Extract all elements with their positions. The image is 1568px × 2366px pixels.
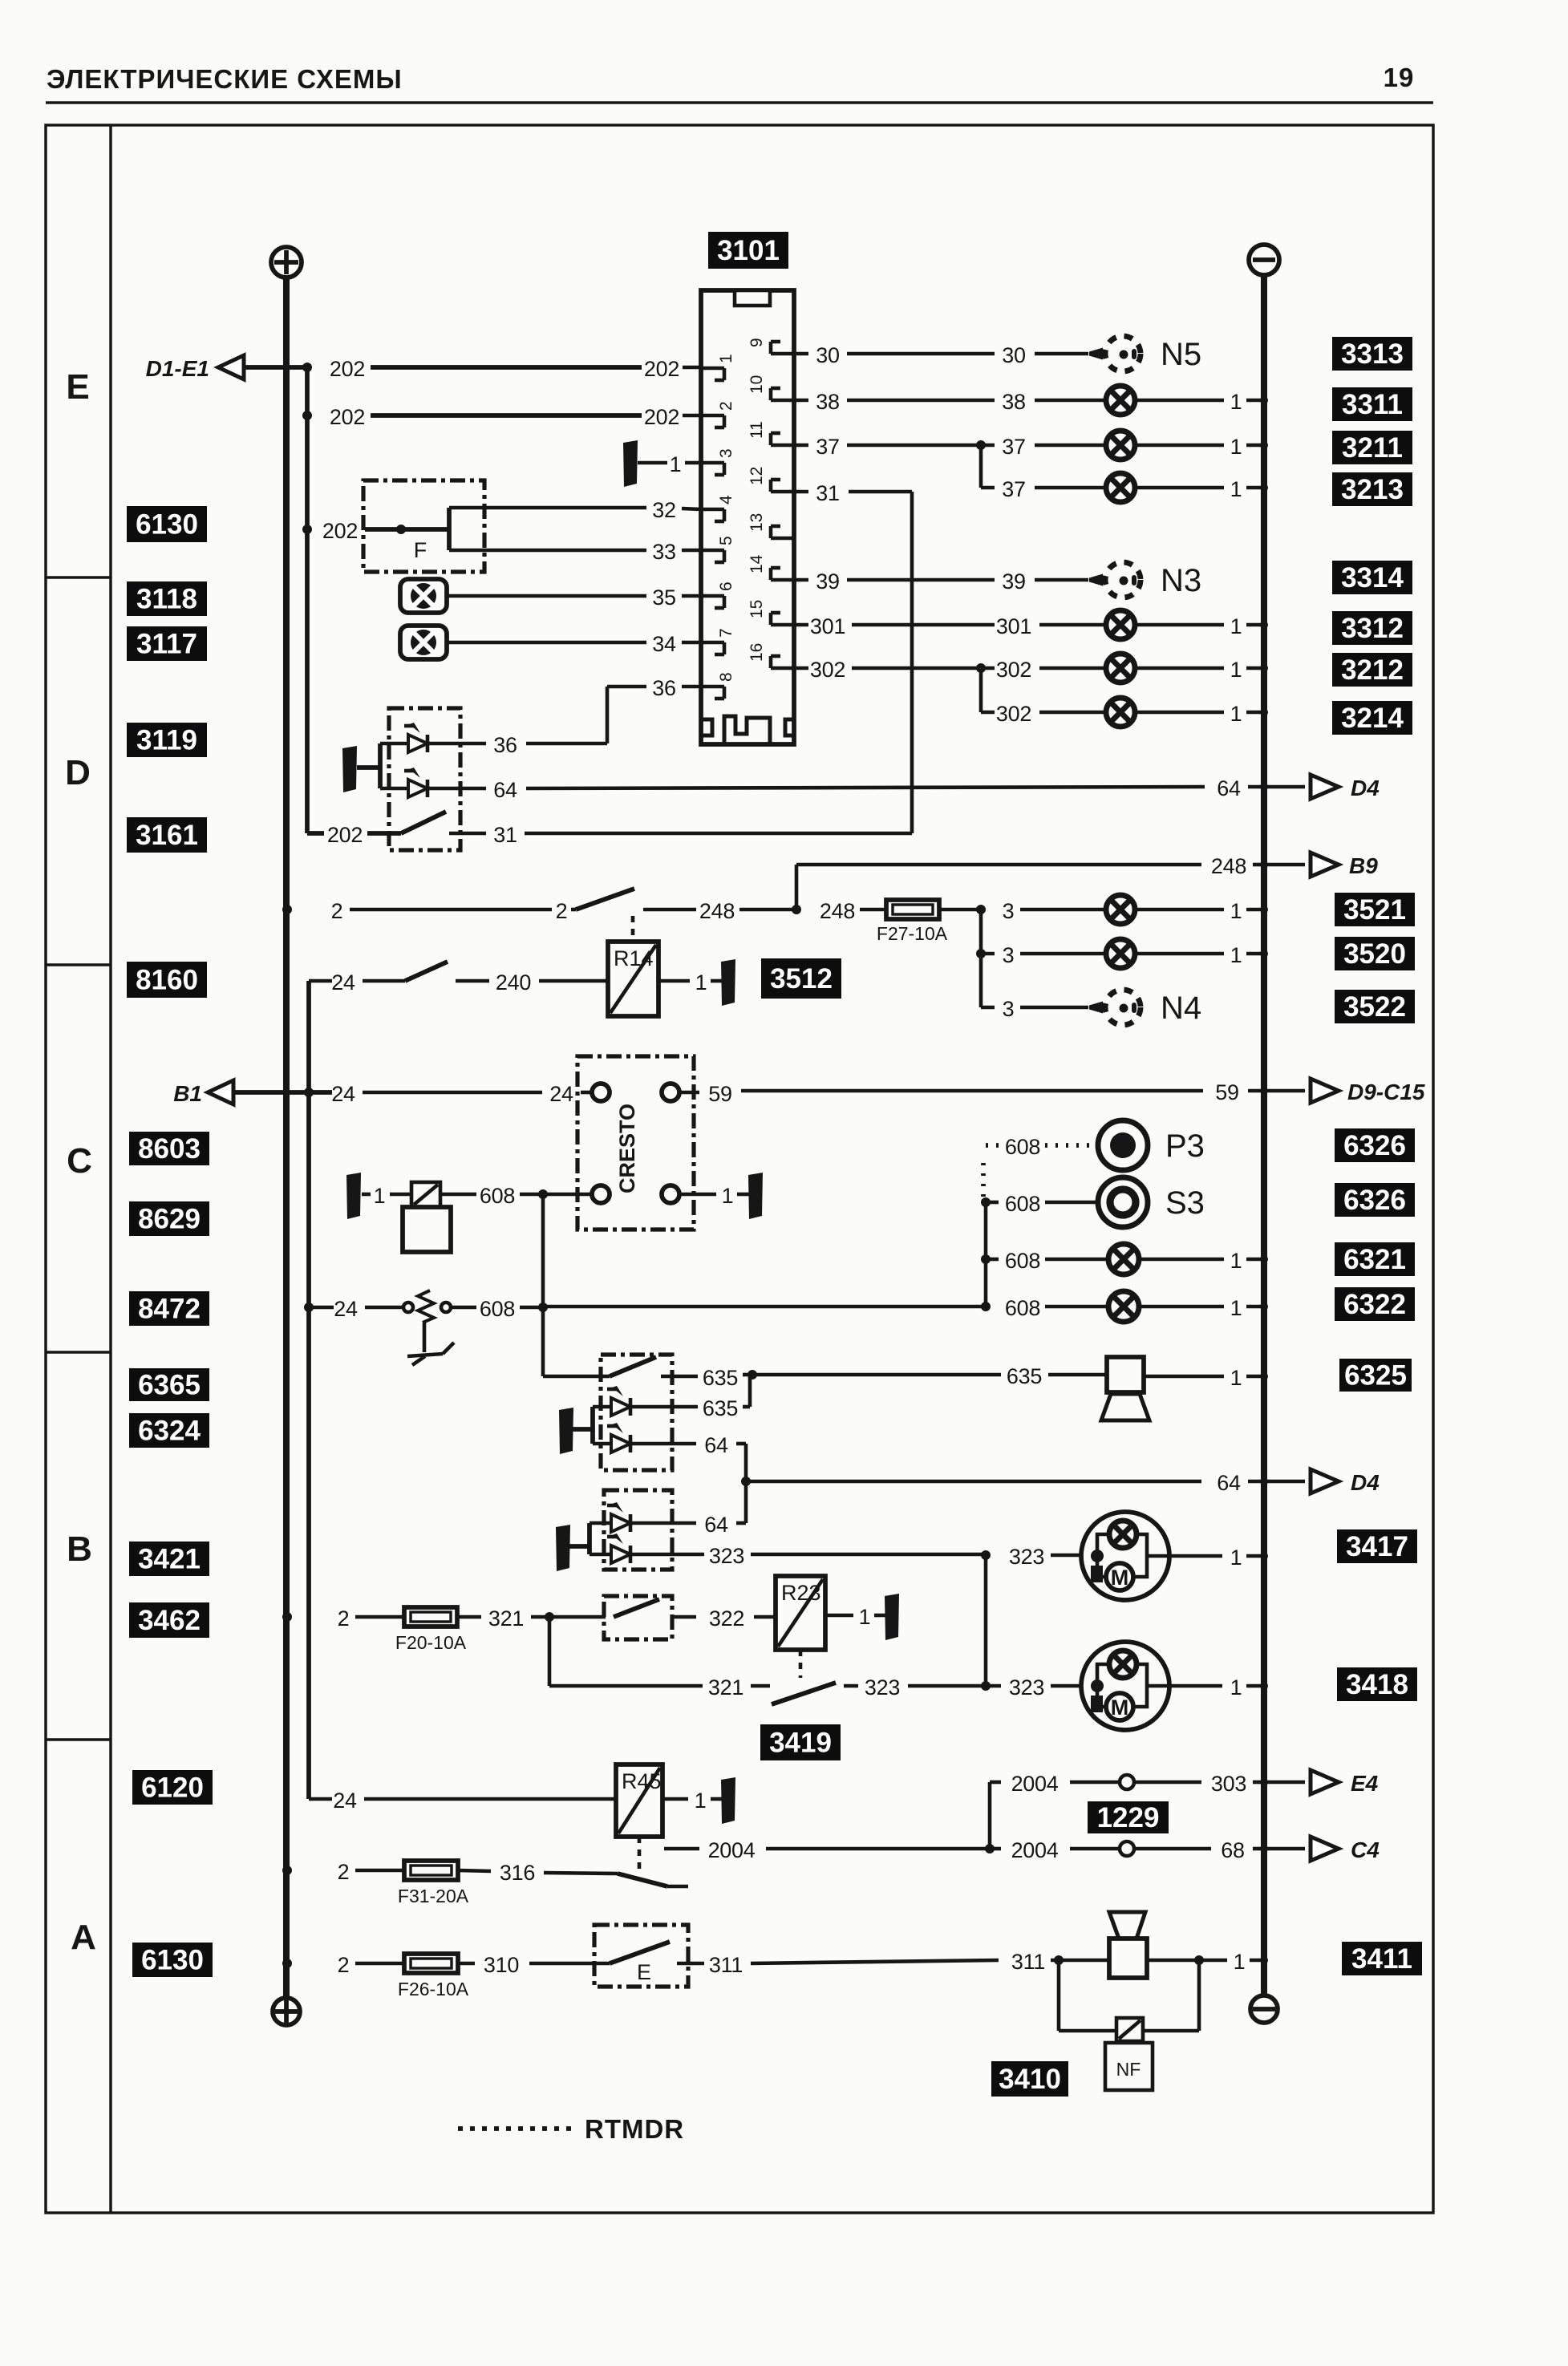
svg-text:31: 31 <box>816 481 839 505</box>
svg-text:3311: 3311 <box>1342 389 1403 420</box>
wire 37 from pin 11 <box>794 435 1106 459</box>
svg-text:3: 3 <box>1003 997 1015 1021</box>
wire 31 route to pin 12 <box>493 481 912 847</box>
svg-text:10: 10 <box>748 375 766 394</box>
wire 608 to switch S3 <box>981 1192 1097 1216</box>
svg-text:311: 311 <box>1011 1950 1045 1974</box>
svg-text:7: 7 <box>717 628 735 638</box>
wire 30 from pin 9 <box>794 343 1088 367</box>
fuse F20-10A <box>395 1607 467 1653</box>
section tick C/B <box>46 1351 111 1353</box>
lamp 6321 <box>1108 1244 1268 1274</box>
svg-text:302: 302 <box>810 658 845 682</box>
svg-text:64: 64 <box>1217 1471 1241 1495</box>
label box 3462 <box>129 1602 209 1638</box>
svg-text:3462: 3462 <box>138 1605 201 1636</box>
svg-text:3119: 3119 <box>136 725 197 756</box>
svg-text:3117: 3117 <box>136 629 197 660</box>
label box 3314 <box>1332 561 1412 594</box>
ground at CRESTO <box>748 1173 763 1219</box>
svg-text:2: 2 <box>338 1606 350 1631</box>
wire 36 pin 8 route <box>427 676 701 757</box>
wire 1 to pin 3 <box>638 452 701 476</box>
switch E blade <box>610 1942 670 1963</box>
svg-text:31: 31 <box>493 823 517 847</box>
svg-text:1: 1 <box>374 1184 386 1208</box>
svg-text:302: 302 <box>996 658 1031 682</box>
svg-text:15: 15 <box>748 600 766 618</box>
svg-text:2: 2 <box>331 899 343 923</box>
svg-text:321: 321 <box>708 1675 743 1700</box>
wire 1 from R23 to ground <box>825 1605 885 1629</box>
pin 16 of 3101 <box>748 643 794 668</box>
wire 2004 / 303 to E4 <box>990 1772 1305 1796</box>
CRESTO terminal bottom-left <box>592 1185 610 1203</box>
label box 3512 <box>761 958 841 999</box>
wire 321 <box>457 1606 606 1631</box>
svg-text:38: 38 <box>1002 390 1025 414</box>
label box 1229 <box>1088 1801 1169 1833</box>
blower motor 3411 <box>1109 1912 1147 1978</box>
CRESTO terminal top-left <box>592 1084 610 1101</box>
feed wire vertical 202 (upper) <box>305 367 310 833</box>
svg-text:8603: 8603 <box>138 1133 201 1165</box>
switch S3 (lighter ring) <box>1098 1177 1205 1227</box>
fuse F31-20A <box>398 1861 469 1906</box>
svg-text:3213: 3213 <box>1341 474 1404 505</box>
label box 6130 (section E) <box>127 506 207 542</box>
svg-text:32: 32 <box>652 498 675 522</box>
wire 323 upper run <box>630 1544 1081 1569</box>
svg-text:39: 39 <box>816 569 839 594</box>
label box 3161 <box>127 817 207 853</box>
lamp 6322 <box>1108 1291 1268 1322</box>
wire 64 to D4 lower <box>630 1433 1305 1523</box>
pin 10 of 3101 <box>748 375 794 400</box>
svg-text:3313: 3313 <box>1341 338 1404 370</box>
svg-text:1: 1 <box>1230 1675 1242 1700</box>
illumination diode (wire 64) <box>380 768 427 797</box>
horn 6325 <box>1101 1357 1149 1420</box>
svg-text:202: 202 <box>322 519 358 543</box>
left index column divider <box>109 125 111 2213</box>
svg-text:19: 19 <box>1384 63 1415 92</box>
wire 323 to 3418 <box>986 1675 1081 1700</box>
svg-text:1: 1 <box>722 1184 734 1208</box>
wire 34 to pin 7 <box>447 632 701 656</box>
svg-text:202: 202 <box>327 823 363 847</box>
svg-text:608: 608 <box>1005 1296 1040 1320</box>
relay-to-switch dashed link R45 <box>638 1837 642 1872</box>
pin 2 of 3101 <box>701 401 735 427</box>
wire 24 to CRESTO <box>233 1082 592 1106</box>
pin 12 of 3101 <box>748 467 794 492</box>
feed wire vertical 24 (lower) <box>306 981 311 1799</box>
svg-text:E: E <box>637 1960 651 1984</box>
wire 3 branch vertical <box>979 910 983 1007</box>
svg-text:ЭЛЕКТРИЧЕСКИЕ СХЕМЫ: ЭЛЕКТРИЧЕСКИЕ СХЕМЫ <box>47 64 403 94</box>
node D4 (page reference out, lower) <box>1311 1469 1380 1495</box>
svg-text:322: 322 <box>709 1606 744 1631</box>
connector 3101 body <box>701 290 794 744</box>
svg-text:635: 635 <box>1007 1364 1042 1388</box>
illumination diode (wire 64, 3421) <box>590 1502 746 1537</box>
label box 6322 <box>1335 1287 1415 1321</box>
relay R14 <box>608 942 658 1016</box>
svg-text:6321: 6321 <box>1343 1244 1406 1275</box>
svg-text:64: 64 <box>704 1513 728 1537</box>
svg-text:3118: 3118 <box>136 584 197 615</box>
wire 3 to indicator N4 <box>981 997 1088 1021</box>
svg-text:3417: 3417 <box>1346 1531 1408 1562</box>
svg-text:59: 59 <box>1215 1080 1238 1104</box>
svg-text:301: 301 <box>996 614 1031 638</box>
pin 8 of 3101 <box>701 672 735 699</box>
svg-text:6326: 6326 <box>1343 1130 1406 1161</box>
svg-text:2004: 2004 <box>708 1838 756 1862</box>
svg-text:1: 1 <box>1230 390 1242 414</box>
svg-text:R14: R14 <box>614 946 654 970</box>
ground at R45 <box>721 1777 735 1824</box>
svg-text:M: M <box>1111 1695 1129 1720</box>
svg-text:33: 33 <box>652 540 675 564</box>
svg-text:NF: NF <box>1116 2059 1141 2080</box>
svg-text:608: 608 <box>1005 1249 1040 1273</box>
pin 14 of 3101 <box>748 554 794 580</box>
svg-text:RTMDR: RTMDR <box>585 2114 684 2144</box>
svg-text:310: 310 <box>484 1953 519 1977</box>
wire 302 from pin 16 <box>794 658 1106 682</box>
svg-text:P3: P3 <box>1165 1128 1205 1164</box>
pin 9 of 3101 <box>748 338 794 354</box>
indicator N3 <box>1089 562 1201 598</box>
svg-text:16: 16 <box>748 643 766 662</box>
relay R23 <box>776 1576 825 1650</box>
net 608 right vertical <box>984 1202 988 1307</box>
section letter D <box>65 753 91 792</box>
svg-text:1: 1 <box>717 354 735 363</box>
wire 59 to D9-C15 <box>679 1080 1305 1106</box>
switch unit 3421 enclosure <box>604 1490 672 1570</box>
svg-text:6130: 6130 <box>141 1945 204 1976</box>
lamp 3520 <box>1106 939 1268 968</box>
relay R45 <box>616 1764 662 1837</box>
node D1-E1 (page reference in) <box>146 355 244 381</box>
svg-text:F26-10A: F26-10A <box>398 1979 469 1999</box>
svg-text:635: 635 <box>703 1396 738 1420</box>
switch unit F (6130) enclosure <box>363 480 484 572</box>
lamp 3213 <box>1106 473 1268 502</box>
svg-text:2: 2 <box>556 899 568 923</box>
svg-text:323: 323 <box>865 1675 900 1700</box>
power symbol - (top of right bus) <box>1249 245 1279 275</box>
power symbol - (bottom of right bus) <box>1250 1995 1278 2023</box>
svg-text:A: A <box>71 1918 96 1957</box>
pin 1 of 3101 <box>701 354 735 380</box>
svg-text:35: 35 <box>652 585 675 610</box>
wire 311 main run <box>677 1950 1109 1977</box>
svg-text:608: 608 <box>1005 1135 1040 1159</box>
indicator lamp 3118 <box>400 579 447 613</box>
svg-text:1229: 1229 <box>1097 1802 1160 1833</box>
ground bar of 3421 <box>556 1523 590 1571</box>
svg-text:3: 3 <box>1003 899 1015 923</box>
svg-text:3212: 3212 <box>1341 654 1404 686</box>
wire 202 into F <box>302 508 449 550</box>
svg-text:9: 9 <box>748 338 766 347</box>
svg-text:2: 2 <box>338 1953 350 1977</box>
switch-to-relay dashed link R14 <box>631 916 635 942</box>
illumination diode (wire 36) <box>380 723 427 752</box>
svg-text:202: 202 <box>330 405 365 429</box>
svg-text:1: 1 <box>1230 658 1242 682</box>
svg-text:3101: 3101 <box>717 235 780 266</box>
wire 202 to pin 2 <box>302 405 701 429</box>
svg-text:608: 608 <box>480 1297 515 1321</box>
switch unit E enclosure <box>594 1925 688 1987</box>
section letter C <box>67 1141 92 1181</box>
svg-text:3: 3 <box>717 448 735 458</box>
lamp 3214 <box>1106 698 1268 727</box>
section letter B <box>67 1529 92 1569</box>
wire 2004 / 68 to C4 <box>990 1838 1305 1862</box>
svg-text:5: 5 <box>717 536 735 545</box>
label box 3312 <box>1332 611 1412 645</box>
svg-text:2004: 2004 <box>1011 1772 1059 1796</box>
svg-text:1: 1 <box>1230 435 1242 459</box>
power symbol + (bottom of left bus) <box>273 1998 300 2025</box>
svg-text:248: 248 <box>1211 854 1246 878</box>
svg-text:240: 240 <box>496 970 531 995</box>
svg-text:321: 321 <box>488 1606 524 1631</box>
svg-text:36: 36 <box>493 733 517 757</box>
svg-text:2: 2 <box>338 1860 350 1884</box>
label box 6321 <box>1335 1242 1415 1276</box>
svg-text:1: 1 <box>670 452 682 476</box>
svg-text:14: 14 <box>748 554 766 573</box>
lamp 3311 <box>1106 386 1268 415</box>
svg-text:635: 635 <box>703 1366 738 1390</box>
svg-text:68: 68 <box>1221 1838 1244 1862</box>
wire 1 from R45 to ground <box>662 1789 722 1813</box>
switch unit 3119/3161 enclosure <box>389 708 460 850</box>
svg-text:24: 24 <box>549 1082 573 1106</box>
svg-text:C: C <box>67 1141 92 1181</box>
wire 1 from CRESTO to ground <box>679 1184 749 1208</box>
svg-text:323: 323 <box>1009 1545 1044 1569</box>
pin 3 of 3101 <box>701 448 735 475</box>
wire 635 link <box>630 1376 750 1420</box>
tail lamp unit 3417 <box>1081 1512 1169 1600</box>
label box 3417 <box>1337 1529 1417 1563</box>
label box 3410 <box>991 2061 1068 2097</box>
svg-text:37: 37 <box>1002 477 1025 501</box>
CRESTO terminal top-right <box>662 1084 679 1101</box>
wire 32 to pin 4 <box>449 498 701 522</box>
svg-text:30: 30 <box>816 343 839 367</box>
svg-text:6322: 6322 <box>1343 1289 1406 1320</box>
label box 3311 <box>1332 387 1412 421</box>
svg-text:1: 1 <box>1230 1249 1242 1273</box>
switch unit 6365/6324 enclosure <box>601 1355 672 1470</box>
label box 8472 <box>129 1291 209 1326</box>
wire D1-E1 to 202 feed <box>244 363 312 372</box>
page number 19 <box>1384 63 1415 92</box>
pin 6 of 3101 <box>701 581 735 608</box>
switch 3419 lower (wire 323) <box>772 1675 986 1704</box>
svg-text:3: 3 <box>1003 943 1015 967</box>
node D9-C15 (page reference out) <box>1311 1079 1425 1104</box>
wire 1 from 3418 <box>1169 1675 1268 1700</box>
label box 8603 <box>129 1132 209 1165</box>
wire 608 dotted to P3 <box>983 1135 1096 1197</box>
label box 3119 <box>127 723 207 757</box>
svg-text:202: 202 <box>644 405 679 429</box>
svg-text:N5: N5 <box>1161 337 1201 372</box>
svg-text:3512: 3512 <box>770 963 833 995</box>
svg-text:3314: 3314 <box>1341 562 1404 594</box>
svg-text:34: 34 <box>652 632 676 656</box>
switch 6365 (wire 635) <box>610 1357 757 1390</box>
node B9 (page reference out) <box>1311 853 1378 878</box>
net 2004 vertical link <box>988 1782 992 1849</box>
svg-text:1: 1 <box>1230 702 1242 726</box>
lamp 3211 <box>1106 431 1268 460</box>
svg-text:S3: S3 <box>1165 1185 1205 1221</box>
svg-text:301: 301 <box>810 614 845 638</box>
wire 2 row (F26) <box>282 1953 404 1977</box>
label box 6324 <box>129 1413 209 1448</box>
svg-text:11: 11 <box>748 421 766 439</box>
section tick B/A <box>46 1738 111 1740</box>
svg-text:3411: 3411 <box>1351 1943 1412 1975</box>
indicator N5 <box>1089 336 1201 372</box>
wire 1 from 3411 <box>1147 1950 1268 1974</box>
wire 2 row (3462) <box>282 1606 404 1631</box>
svg-text:6: 6 <box>717 581 735 591</box>
resistor bypass wire 3410 <box>1059 1960 1199 2031</box>
svg-text:3421: 3421 <box>138 1544 201 1575</box>
svg-text:36: 36 <box>652 676 675 700</box>
lamp 3312 <box>1106 610 1268 639</box>
illumination diode (wire 635) <box>593 1386 630 1416</box>
svg-text:M: M <box>1111 1566 1129 1590</box>
wire 24 to R45 <box>309 1789 616 1813</box>
svg-text:B: B <box>67 1529 92 1569</box>
svg-text:N4: N4 <box>1161 991 1201 1026</box>
illumination diode (wire 64, 6324) <box>593 1423 630 1452</box>
net 608 vertical link <box>541 1194 545 1307</box>
pin 11 of 3101 <box>748 421 794 445</box>
label box 8160 <box>127 962 207 998</box>
svg-text:59: 59 <box>708 1082 731 1106</box>
label box 3212 <box>1332 653 1412 687</box>
wire 38 from pin 10 <box>794 390 1106 414</box>
wire 37 branch <box>981 445 1106 501</box>
svg-text:3410: 3410 <box>999 2064 1061 2095</box>
label box 3521 <box>1335 893 1415 926</box>
switch 6120 (thermal) <box>618 1874 688 1886</box>
legend RTMDR dotted wire <box>458 2126 574 2131</box>
wire 3 to lamp 3520 <box>976 943 1106 967</box>
wire 2 / 248 row <box>282 889 886 923</box>
svg-text:1: 1 <box>859 1605 871 1629</box>
relay-to-switch dashed link R23 <box>799 1650 803 1678</box>
node B1 (page reference in) <box>173 1080 233 1106</box>
fuse F26-10A <box>398 1954 469 1999</box>
node D4 (page reference out, upper) <box>1311 775 1380 800</box>
tail lamp unit 3418 <box>1081 1642 1169 1730</box>
svg-text:3161: 3161 <box>136 820 198 851</box>
svg-text:248: 248 <box>820 899 855 923</box>
schematic frame <box>46 125 1433 2213</box>
label box 3411 <box>1342 1942 1422 1975</box>
cigar lighter 8629 <box>362 1182 451 1252</box>
svg-text:37: 37 <box>816 435 839 459</box>
label box 3214 <box>1332 701 1412 735</box>
label box 6325 <box>1339 1359 1412 1392</box>
lamp 3521 <box>1106 895 1268 924</box>
svg-text:6325: 6325 <box>1344 1360 1407 1392</box>
svg-text:1: 1 <box>1230 899 1242 923</box>
label box 8629 <box>129 1201 209 1236</box>
svg-text:6324: 6324 <box>138 1416 201 1447</box>
svg-text:1: 1 <box>1230 614 1242 638</box>
section tick E/D <box>46 576 111 578</box>
wire 635 main run <box>752 1364 1107 1388</box>
ground at R14 <box>721 959 735 1006</box>
ground at 8629 <box>346 1173 361 1219</box>
pin 13 of 3101 <box>748 513 794 538</box>
indicator N4 <box>1089 990 1201 1026</box>
svg-text:B9: B9 <box>1349 853 1378 878</box>
svg-text:F: F <box>414 538 427 562</box>
bus wire + (left vertical) <box>283 278 290 1998</box>
svg-text:30: 30 <box>1002 343 1025 367</box>
node C4 (page reference out) <box>1311 1837 1380 1862</box>
svg-text:E: E <box>66 367 89 407</box>
power symbol + (top of left bus) <box>271 247 302 278</box>
wire 202 to pin 1 <box>330 357 701 381</box>
svg-text:6120: 6120 <box>141 1772 204 1804</box>
wire 608 into 6365 <box>543 1307 610 1376</box>
svg-text:8629: 8629 <box>138 1204 201 1235</box>
svg-text:D4: D4 <box>1351 776 1380 800</box>
svg-text:37: 37 <box>1002 435 1025 459</box>
wire 1 from 3417 <box>1169 1546 1268 1570</box>
wire 33 to pin 5 <box>449 540 701 564</box>
switch 3419 upper (wire 322) <box>614 1599 776 1631</box>
svg-text:D1-E1: D1-E1 <box>146 356 209 381</box>
svg-text:1: 1 <box>695 970 707 995</box>
svg-text:R23: R23 <box>781 1581 821 1605</box>
svg-text:D: D <box>65 753 91 792</box>
svg-text:R45: R45 <box>622 1769 662 1793</box>
svg-text:F31-20A: F31-20A <box>398 1886 469 1906</box>
svg-text:3522: 3522 <box>1343 991 1406 1023</box>
ground at R23 <box>885 1594 899 1640</box>
svg-text:302: 302 <box>996 702 1031 726</box>
svg-text:3214: 3214 <box>1341 703 1404 734</box>
svg-text:24: 24 <box>331 1082 355 1106</box>
lamp 3212 <box>1106 654 1268 683</box>
stop-lamp switch 8472 (wire 24/608) <box>304 1290 548 1323</box>
indicator lamp 3117 <box>400 626 447 659</box>
label box 3522 <box>1335 990 1415 1023</box>
label box 3520 <box>1335 937 1415 970</box>
svg-text:E4: E4 <box>1351 1771 1379 1796</box>
svg-text:D9-C15: D9-C15 <box>1347 1080 1425 1104</box>
